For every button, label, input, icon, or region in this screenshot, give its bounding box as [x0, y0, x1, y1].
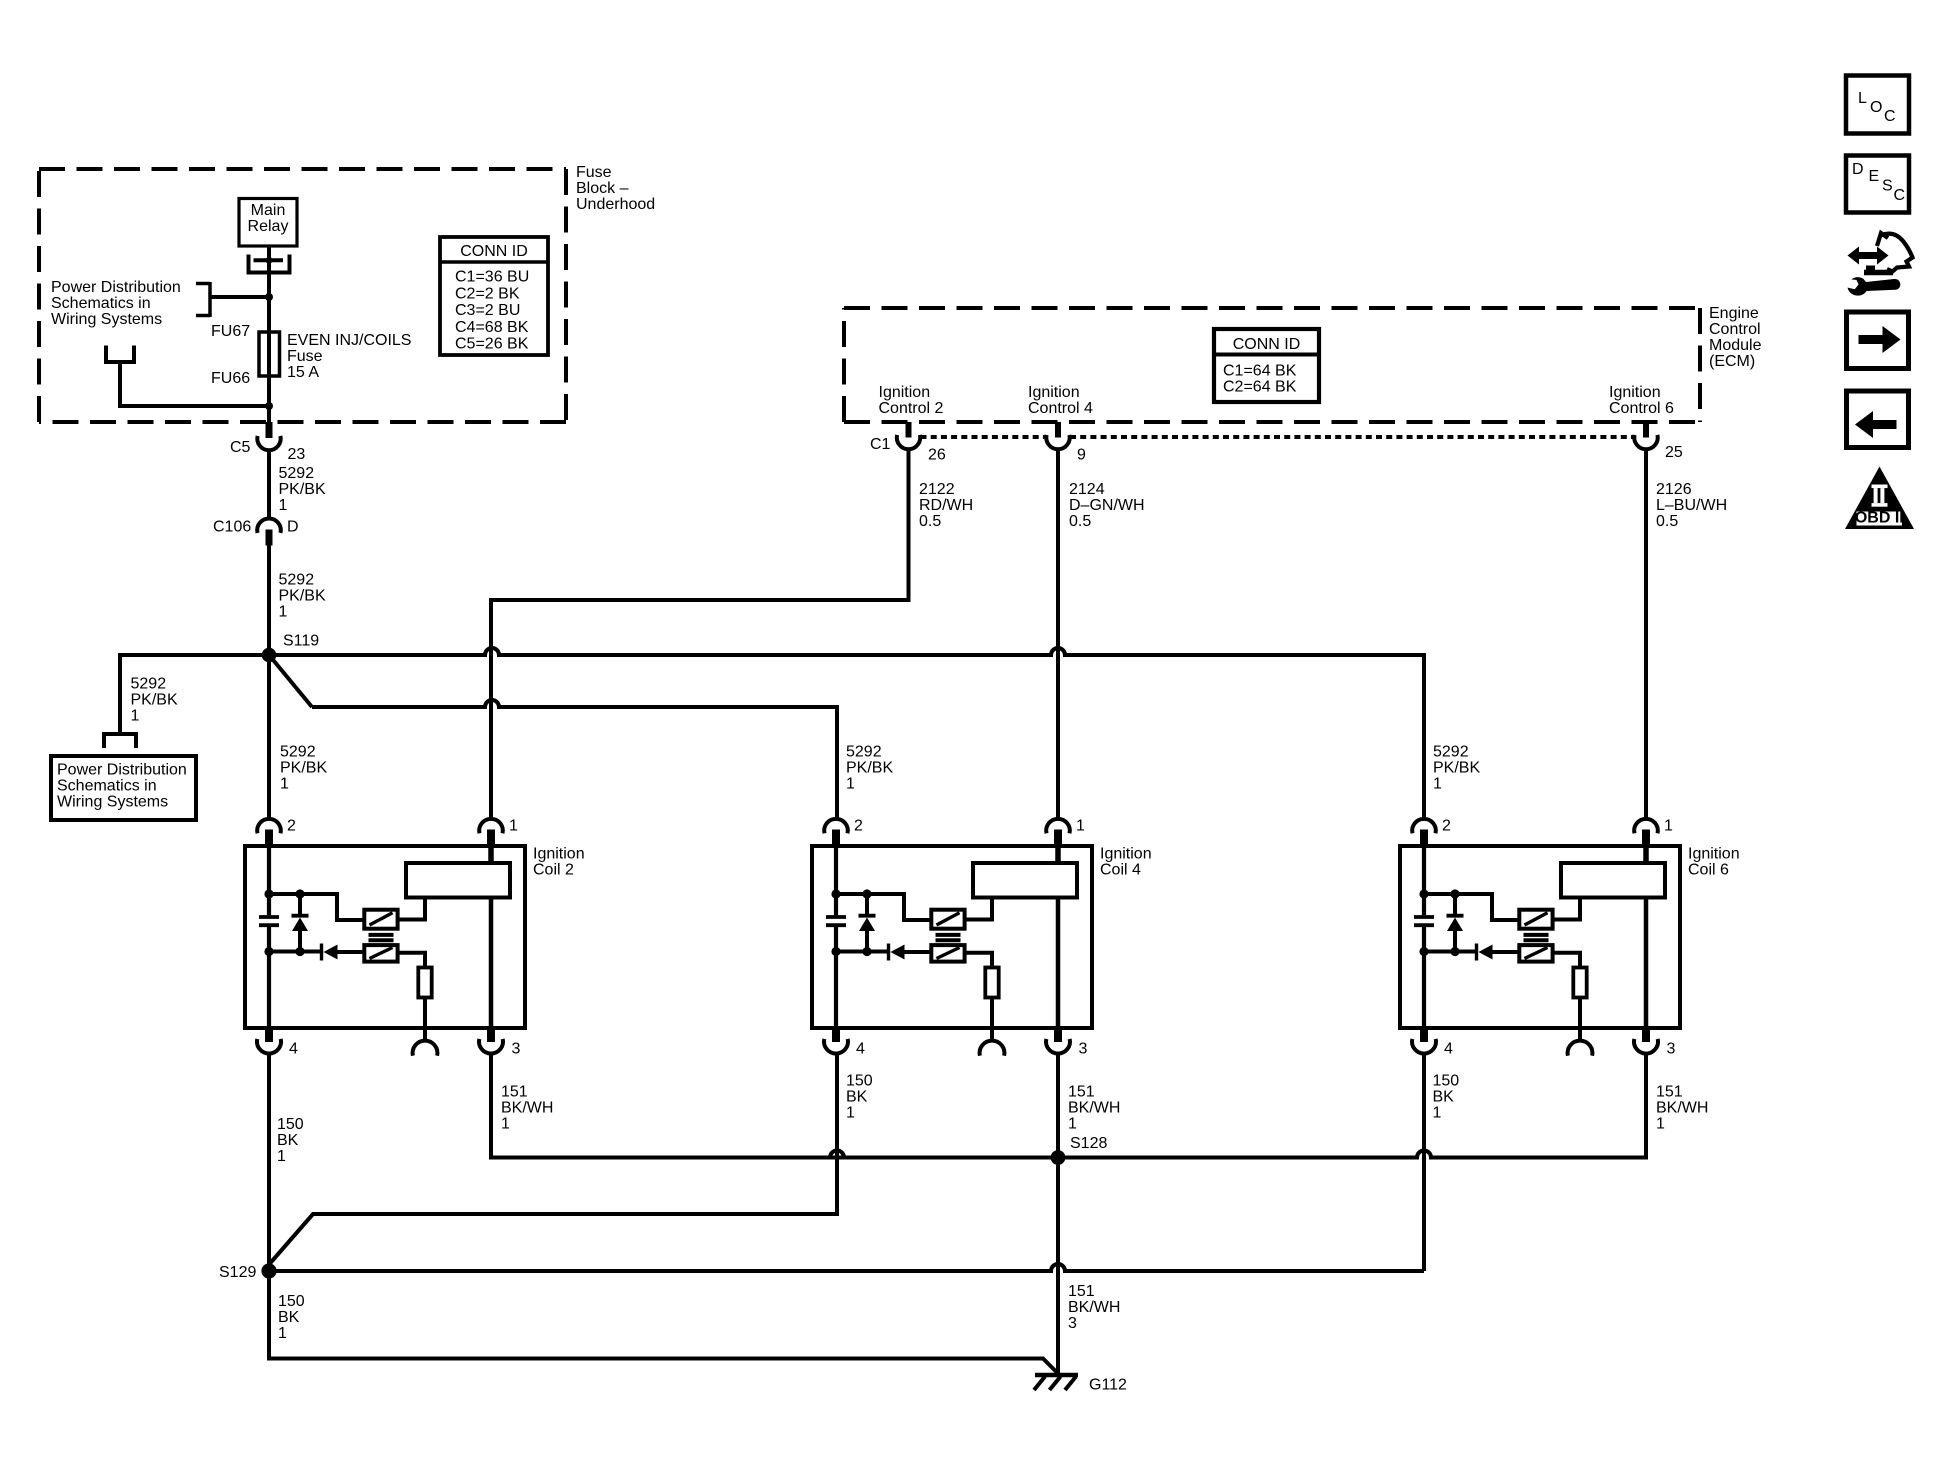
ignition coil 6 pin 1 dome [1634, 819, 1658, 833]
svg-text:0.5: 0.5 [1069, 513, 1091, 530]
svg-text:1: 1 [131, 708, 140, 725]
diagram navigation icon: double arrow [1848, 247, 1889, 265]
ECM pin 25 female bowl [1634, 435, 1657, 449]
DESC navigation box [1846, 156, 1909, 213]
OBD II label box [1857, 512, 1903, 526]
connector C5 female bowl [257, 436, 280, 450]
svg-text:Control 6: Control 6 [1609, 400, 1674, 417]
forward arrow [1859, 326, 1901, 353]
svg-text:Ignition: Ignition [1609, 384, 1661, 401]
svg-text:5292: 5292 [846, 744, 882, 761]
svg-text:5292: 5292 [1433, 744, 1469, 761]
ignition coil 6 pin 2 dome [1412, 819, 1436, 833]
svg-text:1: 1 [279, 497, 288, 514]
off-page cup symbol below power distribution text [106, 346, 134, 363]
ignition coil 2 driver block upper [364, 910, 397, 929]
svg-text:1: 1 [277, 1148, 286, 1165]
svg-text:Control: Control [1709, 321, 1761, 338]
ignition coil 2 pin 2 dome [257, 819, 281, 833]
ignition coil 4 node dots [831, 889, 840, 898]
OBD II pillar glyph [1872, 485, 1888, 489]
svg-text:1: 1 [1076, 818, 1085, 835]
ignition coil 6 pin 4 bowl [1412, 1039, 1436, 1054]
wire: cup to fuse bottom node [120, 362, 269, 406]
ignition coil 4 pin 1 to winding wire [1055, 846, 1061, 863]
svg-text:1: 1 [1433, 776, 1442, 793]
wire: 5292 feed to ignition coil 4 pin 2 with crossover hop [312, 700, 837, 819]
svg-text:5292: 5292 [279, 572, 315, 589]
svg-text:BK: BK [846, 1089, 868, 1106]
ignition coil 2 wire resistor to unused terminal [423, 998, 427, 1042]
svg-text:C: C [1894, 187, 1906, 204]
OBD II warning triangle [1845, 467, 1914, 530]
ignition coil 4 winding block [973, 863, 1077, 898]
ignition coil 6 diode to driver [1475, 944, 1478, 961]
ignition coil 4 pin 1 dome [1046, 819, 1070, 833]
svg-text:PK/BK: PK/BK [279, 481, 326, 498]
ECM connector face dotted line [921, 435, 1047, 439]
ignition coil 4 B+ internal wire (pin 2) [834, 846, 838, 915]
ignition coil 2 pin 4 bowl [257, 1039, 281, 1054]
svg-text:C2=2 BK: C2=2 BK [455, 285, 520, 302]
svg-text:5292: 5292 [131, 676, 167, 693]
svg-text:23: 23 [288, 446, 306, 463]
svg-text:1: 1 [280, 776, 289, 793]
ignition coil 4 diode to driver [887, 944, 890, 961]
ignition coil 6 box [1400, 846, 1680, 1028]
ECM pin 26 male stub [906, 422, 912, 438]
ignition coil 4 pin 2 dome [824, 819, 848, 833]
main relay box [239, 199, 297, 247]
svg-text:151: 151 [1656, 1084, 1683, 1101]
connector C106 dome [257, 518, 281, 532]
ignition coil 2 box [245, 846, 525, 1028]
svg-text:25: 25 [1665, 444, 1683, 461]
ECM pin 9 male stub [1055, 422, 1061, 438]
ECM CONN ID separator [1214, 353, 1319, 357]
svg-text:G112: G112 [1089, 1377, 1127, 1394]
wire 151 BK/WH: coil 6 pin 3 to S128 with crossover hop [830, 1054, 1646, 1158]
wire 150 BK: coil 6 pin 4 down to S129 line [1422, 1054, 1426, 1272]
splice S119 junction dot [262, 648, 277, 663]
wire: main relay to fuse FU67 [267, 246, 271, 424]
wire 150 BK: coil 4 pin 4 to S129 via corner and diagonal [269, 1054, 837, 1265]
wire 5292 PK/BK from C106 to S119 and coil 2 pin 2 [267, 546, 271, 819]
svg-text:4: 4 [1444, 1041, 1453, 1058]
svg-text:BK: BK [277, 1132, 299, 1149]
svg-text:Wiring Systems: Wiring Systems [51, 311, 162, 328]
ignition coil 6 resistor [1573, 968, 1586, 998]
svg-text:Block –: Block – [576, 180, 629, 197]
ignition coil 4 pin 3 bowl [1046, 1039, 1070, 1054]
ignition coil 4 capacitor [826, 915, 846, 919]
ignition coil 4 pin 3 stub [1054, 1028, 1062, 1042]
svg-text:Ignition: Ignition [1028, 384, 1080, 401]
svg-text:1: 1 [1068, 1116, 1077, 1133]
wire 151 BK/WH: coil 4 pin 3 down through S128 to ground [1056, 1054, 1060, 1374]
svg-text:1: 1 [509, 818, 518, 835]
svg-text:PK/BK: PK/BK [279, 588, 326, 605]
svg-text:2: 2 [854, 818, 863, 835]
relay terminal cavity symbol [249, 255, 290, 273]
svg-text:Wiring Systems: Wiring Systems [57, 794, 168, 811]
svg-text:151: 151 [1068, 1084, 1095, 1101]
wire 2122 RD/WH: ECM pin 26 to ignition coil 2 pin 1 [491, 449, 909, 819]
ignition coil 2 driver block lower [364, 945, 397, 962]
ignition coil 4 winding to pin 3 wire [1056, 897, 1061, 1028]
ignition coil 4 pin 4 stub [832, 1028, 840, 1042]
svg-text:3: 3 [1079, 1041, 1088, 1058]
svg-text:C1: C1 [870, 436, 891, 453]
svg-text:EVEN INJ/COILS: EVEN INJ/COILS [287, 332, 411, 349]
svg-text:Engine: Engine [1709, 305, 1759, 322]
LOC navigation box [1846, 76, 1909, 134]
splice S129 junction dot [261, 1263, 276, 1278]
svg-text:1: 1 [846, 1105, 855, 1122]
ignition coil 6 wire node B [1424, 950, 1476, 954]
svg-text:Schematics in: Schematics in [57, 778, 157, 795]
ignition coil 2 capacitor [259, 915, 279, 919]
ignition coil 4 unused terminal dome [980, 1041, 1005, 1056]
wire 2126 L-BU/WH: ECM pin 25 to ignition coil 6 pin 1 [1644, 449, 1648, 819]
ignition coil 2 pin 3 stub [487, 1028, 495, 1042]
svg-text:CONN ID: CONN ID [460, 243, 528, 260]
ignition coil 6 driver block lower [1519, 945, 1552, 962]
svg-text:2: 2 [287, 818, 296, 835]
ignition coil 6 winding block [1561, 863, 1665, 898]
ignition coil 6 pin 2 stub [1420, 830, 1428, 847]
svg-text:1: 1 [279, 604, 288, 621]
wire 150 BK: S129 down and over to ground G112 [269, 1271, 1057, 1373]
svg-text:PK/BK: PK/BK [131, 692, 178, 709]
svg-text:D: D [1852, 161, 1864, 178]
svg-text:0.5: 0.5 [1656, 513, 1678, 530]
wire: S119 right 5292 feed to ignition coil 6 pin 2 with crossover hops [269, 648, 1424, 819]
svg-text:150: 150 [846, 1073, 873, 1090]
svg-text:C106: C106 [213, 519, 251, 536]
svg-text:26: 26 [928, 447, 946, 464]
svg-text:C5: C5 [230, 439, 251, 456]
wire 150 BK: coil 2 pin 4 down to S129 [267, 1054, 271, 1265]
ignition coil 6 wire node A to driver input [1424, 894, 1520, 920]
svg-text:Ignition: Ignition [1688, 846, 1740, 863]
svg-text:C: C [1884, 108, 1896, 125]
ignition coil 2 wire driver to coil winding [398, 897, 425, 919]
svg-text:Coil 6: Coil 6 [1688, 862, 1729, 879]
ignition coil 6 pin 3 bowl [1634, 1039, 1658, 1054]
svg-text:Ignition: Ignition [1100, 846, 1152, 863]
ECM pin 25 male stub [1643, 422, 1649, 438]
svg-text:BK/WH: BK/WH [501, 1100, 553, 1117]
ignition coil 6 pin 1 stub [1642, 830, 1650, 847]
ignition coil 6 pin 4 stub [1420, 1028, 1428, 1042]
svg-text:S128: S128 [1070, 1135, 1107, 1152]
diagram navigation icon: vehicle outline [1877, 233, 1913, 272]
svg-text:BK: BK [278, 1309, 300, 1326]
svg-text:L: L [1858, 90, 1867, 107]
svg-text:1: 1 [1664, 818, 1673, 835]
svg-text:Ignition: Ignition [879, 384, 931, 401]
off-page cup symbol on left branch [104, 734, 136, 748]
svg-text:C2=64 BK: C2=64 BK [1223, 378, 1297, 395]
ignition coil 2 node dots [264, 889, 273, 898]
svg-text:BK/WH: BK/WH [1656, 1100, 1708, 1117]
svg-text:PK/BK: PK/BK [846, 760, 893, 777]
ignition coil 6 isolation bars [1524, 933, 1549, 937]
ignition coil 4 pin 1 stub [1054, 830, 1062, 847]
wire 5292 PK/BK from C5 to C106 [267, 450, 271, 520]
svg-text:1: 1 [846, 776, 855, 793]
svg-text:150: 150 [278, 1293, 305, 1310]
svg-text:5292: 5292 [280, 744, 316, 761]
ignition coil 2 pin 4 stub [265, 1028, 273, 1042]
ignition coil 4 pin 2 stub [832, 830, 840, 847]
ignition coil 2 wire node A to driver input [269, 894, 365, 920]
svg-text:CONN ID: CONN ID [1233, 336, 1301, 353]
relay terminal tick [254, 258, 284, 262]
ignition coil 2 diode to driver [320, 944, 323, 961]
ignition coil 2 wire node B [269, 950, 321, 954]
ignition coil 2 B+ internal wire (pin 2) [267, 846, 271, 915]
ignition coil 6 node dots [1419, 889, 1428, 898]
ignition coil 2 isolation bars [369, 933, 394, 937]
ECM CONN ID table box [1214, 329, 1319, 402]
engine control module dashed outline [844, 306, 1700, 310]
ignition coil 4 zener diode [865, 894, 869, 915]
ignition coil 4 resistor [985, 968, 998, 998]
svg-text:Fuse: Fuse [287, 348, 323, 365]
svg-text:PK/BK: PK/BK [280, 760, 327, 777]
ignition coil 4 pin 4 bowl [824, 1039, 848, 1054]
svg-text:4: 4 [289, 1041, 298, 1058]
back arrow [1855, 411, 1897, 438]
ignition coil 6 pin 3 stub [1642, 1028, 1650, 1042]
ignition coil 2 unused terminal dome [413, 1041, 438, 1056]
svg-text:E: E [1869, 168, 1880, 185]
CONN ID table separator [440, 260, 548, 264]
svg-text:Control 2: Control 2 [879, 400, 944, 417]
svg-text:D: D [287, 519, 299, 536]
svg-text:3: 3 [1068, 1315, 1077, 1332]
wire 2124 D-GN/WH: ECM pin 9 to ignition coil 4 pin 1 [1056, 449, 1060, 819]
ignition coil 4 wire driver to coil winding [965, 897, 992, 919]
svg-text:FU67: FU67 [211, 323, 250, 340]
svg-text:Schematics in: Schematics in [51, 295, 151, 312]
svg-text:15 A: 15 A [287, 364, 319, 381]
ignition coil 2 pin 1 to winding wire [488, 846, 494, 863]
svg-text:Module: Module [1709, 337, 1762, 354]
ignition coil 6 wire resistor to unused terminal [1578, 998, 1582, 1042]
fuse FU66/FU67 EVEN INJ/COILS [259, 332, 280, 376]
diagram navigation icon: lower bar [1864, 270, 1893, 276]
ignition coil 4 isolation bars [936, 933, 961, 937]
ignition coil 6 B+ internal wire (pin 2) [1422, 846, 1426, 915]
svg-text:(ECM): (ECM) [1709, 353, 1755, 370]
ignition coil 6 unused terminal dome [1568, 1041, 1593, 1056]
svg-text:150: 150 [277, 1116, 304, 1133]
svg-text:C5=26 BK: C5=26 BK [455, 336, 529, 353]
wire 151 BK/WH: coil 2 pin 3 to S128 [491, 1054, 1052, 1158]
fuse block - underhood dashed outline [39, 167, 566, 171]
svg-text:Underhood: Underhood [576, 196, 655, 213]
svg-text:1: 1 [1656, 1116, 1665, 1133]
svg-text:151: 151 [501, 1084, 528, 1101]
ignition coil 6 wire driver to resistor [1553, 953, 1580, 968]
ECM pin 9 female bowl [1046, 435, 1069, 449]
ignition coil 2 pin 1 dome [479, 819, 503, 833]
svg-text:S119: S119 [283, 633, 319, 650]
svg-text:BK/WH: BK/WH [1068, 1299, 1120, 1316]
ignition coil 4 wire driver to resistor [965, 953, 992, 968]
svg-text:S: S [1882, 178, 1893, 195]
junction dot below fuse [265, 402, 273, 410]
ignition coil 6 driver block upper [1519, 910, 1552, 929]
svg-text:L–BU/WH: L–BU/WH [1656, 497, 1727, 514]
svg-text:2124: 2124 [1069, 481, 1105, 498]
ignition coil 6 zener diode [1453, 894, 1457, 915]
svg-text:C1=64 BK: C1=64 BK [1223, 362, 1297, 379]
svg-text:Ignition: Ignition [533, 846, 585, 863]
ignition coil 6 pin 1 to winding wire [1643, 846, 1649, 863]
svg-text:1: 1 [501, 1116, 510, 1133]
back arrow navigation box [1847, 391, 1909, 448]
svg-text:2122: 2122 [919, 481, 955, 498]
diagram navigation icon: wrench [1848, 277, 1901, 295]
ignition coil 6 wire driver to coil winding [1553, 897, 1580, 919]
svg-text:5292: 5292 [279, 465, 315, 482]
svg-text:4: 4 [856, 1041, 865, 1058]
wire: S119 left branch to power distribution [120, 655, 269, 733]
svg-text:Relay: Relay [248, 218, 289, 235]
ignition coil 2 winding to pin 3 wire [489, 897, 494, 1028]
ignition coil 2 resistor [418, 968, 431, 998]
wire: bracket to main wire [210, 295, 269, 299]
ignition coil 4 wire resistor to unused terminal [990, 998, 994, 1042]
svg-text:OBD II: OBD II [1855, 510, 1904, 527]
ECM pin 26 female bowl [897, 435, 920, 449]
svg-text:Fuse: Fuse [576, 164, 612, 181]
ignition coil 4 box [812, 846, 1092, 1028]
svg-text:Control 4: Control 4 [1028, 400, 1093, 417]
fuse block CONN ID table box [440, 237, 548, 355]
ignition coil 2 pin 2 stub [265, 830, 273, 847]
svg-text:151: 151 [1068, 1283, 1095, 1300]
svg-text:1: 1 [1433, 1105, 1442, 1122]
svg-text:150: 150 [1433, 1073, 1460, 1090]
svg-text:C1=36 BU: C1=36 BU [455, 269, 529, 286]
svg-text:O: O [1870, 99, 1882, 116]
svg-text:BK: BK [1433, 1089, 1455, 1106]
svg-text:FU66: FU66 [211, 370, 250, 387]
svg-text:PK/BK: PK/BK [1433, 760, 1480, 777]
svg-text:BK/WH: BK/WH [1068, 1100, 1120, 1117]
junction of tick and wire [266, 257, 273, 264]
ignition coil 2 zener diode [298, 894, 302, 915]
ignition coil 2 pin 1 stub [487, 830, 495, 847]
connector C5 male stub [266, 422, 273, 438]
junction dot at relay feed [265, 293, 273, 301]
ignition coil 4 driver block lower [931, 945, 964, 962]
svg-text:9: 9 [1077, 447, 1086, 464]
svg-text:1: 1 [278, 1325, 287, 1342]
wire: S129 horizontal to coil 6 pin 4 with crossover hop [269, 1264, 1424, 1271]
ignition coil 6 capacitor [1414, 915, 1434, 919]
svg-text:0.5: 0.5 [919, 513, 941, 530]
svg-text:Coil 2: Coil 2 [533, 862, 574, 879]
connector C106 male stub [266, 530, 273, 546]
svg-text:Coil 4: Coil 4 [1100, 862, 1141, 879]
svg-text:C3=2 BU: C3=2 BU [455, 302, 520, 319]
svg-text:D–GN/WH: D–GN/WH [1069, 497, 1145, 514]
ignition coil 6 winding to pin 3 wire [1644, 897, 1649, 1028]
svg-text:Power Distribution: Power Distribution [51, 279, 181, 296]
splice S128 junction dot [1051, 1150, 1066, 1165]
off-page bracket to power distribution [208, 282, 212, 317]
ignition coil 2 wire driver to resistor [398, 953, 425, 968]
ignition coil 2 pin 3 bowl [479, 1039, 503, 1054]
power distribution schematics reference box [51, 756, 196, 820]
ground G112 symbol bar [1035, 1373, 1078, 1378]
svg-text:Main: Main [251, 202, 286, 219]
svg-text:3: 3 [1667, 1041, 1676, 1058]
svg-text:Power Distribution: Power Distribution [57, 762, 187, 779]
ignition coil 2 winding block [406, 863, 510, 898]
svg-text:S129: S129 [219, 1264, 256, 1281]
ignition coil 4 wire node A to driver input [836, 894, 932, 920]
svg-text:C4=68 BK: C4=68 BK [455, 319, 529, 336]
svg-text:3: 3 [512, 1041, 521, 1058]
ignition coil 4 driver block upper [931, 910, 964, 929]
svg-text:RD/WH: RD/WH [919, 497, 973, 514]
forward arrow navigation box [1847, 312, 1909, 369]
ground G112 hatch strokes [1034, 1377, 1045, 1391]
svg-text:2126: 2126 [1656, 481, 1692, 498]
wire: S119 diagonal branch to ignition coil 4 pin 2 [269, 655, 312, 707]
svg-text:2: 2 [1442, 818, 1451, 835]
ignition coil 4 wire node B [836, 950, 888, 954]
